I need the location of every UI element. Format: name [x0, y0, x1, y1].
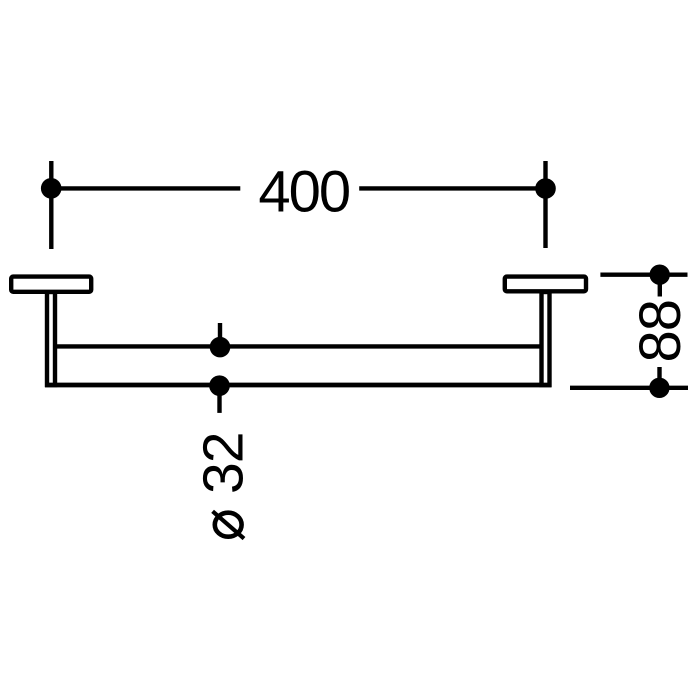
svg-text:400: 400: [258, 160, 349, 225]
svg-text:32: 32: [192, 433, 256, 494]
svg-text:88: 88: [628, 300, 693, 363]
